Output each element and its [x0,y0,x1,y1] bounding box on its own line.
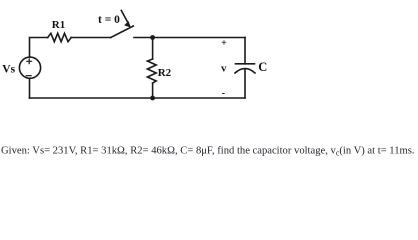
svg-text:C: C [258,60,267,74]
svg-text:R2: R2 [158,67,172,79]
svg-text:+: + [221,38,227,49]
svg-text:R1: R1 [52,19,65,31]
svg-text:v: v [221,62,227,74]
svg-text:Given: Vs= 231V, R1= 31kΩ, R2=: Given: Vs= 231V, R1= 31kΩ, R2= 46kΩ, C= … [1,146,415,158]
svg-text:Vs: Vs [2,64,15,76]
svg-text:-: - [222,88,225,99]
svg-text:t = 0: t = 0 [98,14,120,26]
